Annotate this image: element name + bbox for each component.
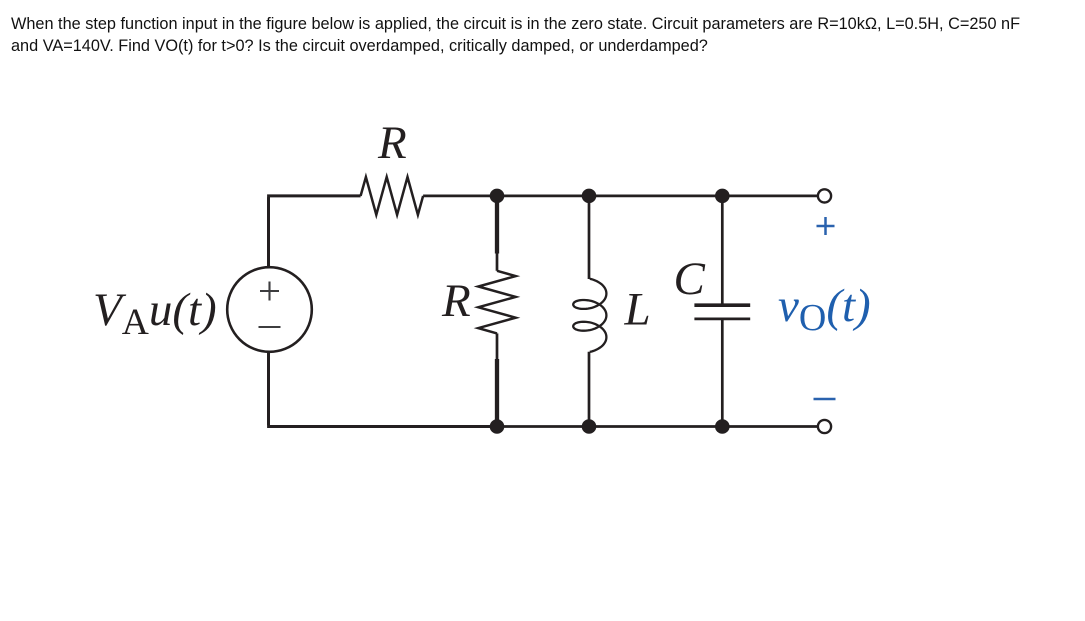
wire node C to top output terminal [722, 195, 818, 198]
output minus sign (blue) [814, 398, 836, 401]
wire bottom rail node E to node F [589, 425, 722, 428]
svg-text:R: R [441, 275, 471, 327]
node B junction dot [582, 189, 597, 204]
wire bottom rail node F to bottom output terminal [722, 425, 818, 428]
problem statement text [11, 13, 1020, 58]
svg-text:C: C [674, 253, 706, 305]
resistor R1 (series R) zigzag [361, 177, 424, 215]
wire resistor R1 to node A [423, 195, 497, 198]
wire source bottom to bottom-left corner [267, 351, 497, 427]
resistor R2 bottom thin lead [496, 333, 499, 359]
svg-text:R: R [377, 117, 407, 169]
capacitor C top lead [721, 196, 724, 306]
resistor R2 zigzag [478, 271, 515, 334]
inductor L top lead [588, 196, 591, 279]
wire node A to node B [497, 195, 589, 198]
svg-text:VAu(t): VAu(t) [93, 284, 217, 343]
svg-text:L: L [624, 284, 651, 336]
output plus sign (blue) [817, 217, 835, 235]
node C junction dot [715, 189, 730, 204]
output terminal top (open circle) [818, 189, 831, 202]
node F junction dot [715, 419, 730, 434]
resistor R2 top lead (thick stub) [495, 196, 499, 254]
wire source top to top-left corner to series resistor [267, 196, 361, 269]
resistor R2 top thin lead [496, 254, 499, 271]
wire node B to node C [589, 195, 722, 198]
resistor R2 bottom lead (thick stub) [495, 359, 499, 427]
voltage source VA circle [227, 267, 312, 352]
svg-text:vO(t): vO(t) [778, 280, 871, 339]
node D junction dot [490, 419, 505, 434]
inductor L bottom lead [588, 352, 591, 427]
node E junction dot [582, 419, 597, 434]
capacitor C bottom lead [721, 319, 724, 427]
capacitor C bottom plate [694, 318, 750, 321]
output terminal bottom (open circle) [818, 420, 831, 433]
node A junction dot [490, 189, 505, 204]
voltage source minus sign [259, 326, 281, 328]
inductor L coil [573, 279, 606, 352]
voltage source plus sign [260, 282, 279, 301]
wire bottom rail node D to node E [497, 425, 589, 428]
capacitor C top plate [694, 303, 750, 307]
